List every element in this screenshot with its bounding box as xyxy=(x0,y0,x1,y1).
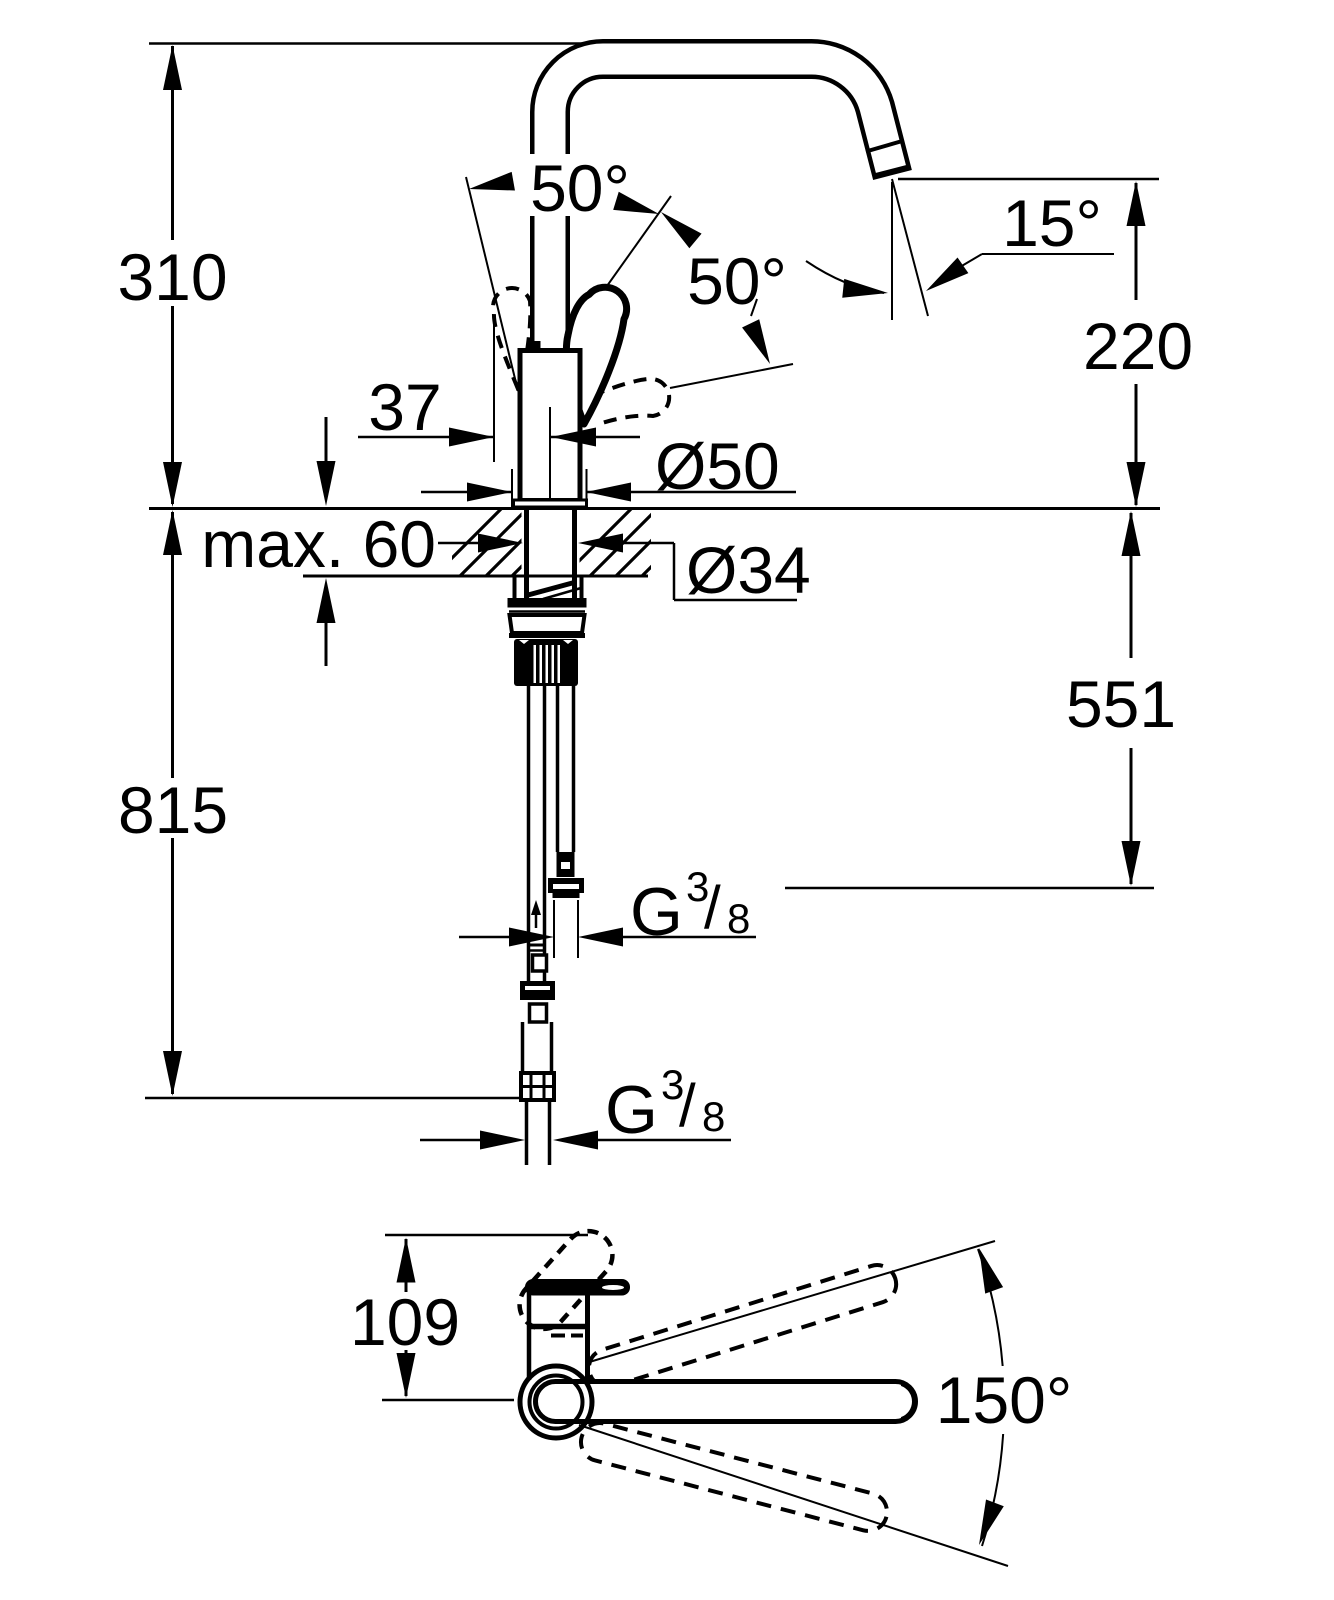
body of faucet xyxy=(520,351,580,501)
svg-text:G: G xyxy=(630,874,683,950)
base flange xyxy=(514,500,587,507)
svg-text:50°: 50° xyxy=(687,244,787,318)
svg-text:150°: 150° xyxy=(936,1363,1073,1437)
150 deg arc xyxy=(978,1249,1004,1546)
label 50 deg (upper) xyxy=(524,154,636,216)
15 deg annotation at spout outlet xyxy=(806,179,1114,320)
svg-text:815: 815 xyxy=(118,773,228,847)
double arrowhead (bowtie) on ray B xyxy=(613,192,662,223)
dimension max. 60 (deck thickness) xyxy=(201,417,523,666)
reference line: spout outlet level (220 datum) xyxy=(898,178,1159,181)
dimension 109 reference lines xyxy=(385,1234,588,1237)
G 3/8 connector nut xyxy=(548,878,584,898)
right supply pipe xyxy=(556,686,560,852)
svg-text:109: 109 xyxy=(350,1285,460,1359)
threaded shank walls xyxy=(524,509,529,599)
handle (down position, dashed) xyxy=(592,379,669,425)
angle ray C (handle down axis) xyxy=(670,364,793,388)
svg-text:8: 8 xyxy=(727,895,750,942)
arrowhead on ray C xyxy=(742,319,779,368)
svg-text:/: / xyxy=(704,874,721,941)
svg-text:37: 37 xyxy=(368,370,441,444)
left supply hose xyxy=(527,686,531,983)
threaded section xyxy=(514,639,578,686)
hose between connectors xyxy=(521,1022,525,1073)
left hose connector xyxy=(520,945,555,1022)
arrowhead on ray A xyxy=(467,172,515,199)
dimension 109 xyxy=(350,1238,460,1399)
plan: handle (dashed, rest position) xyxy=(510,1221,623,1339)
dimension 551 (right, middle) xyxy=(1066,511,1176,886)
deck / counter top line xyxy=(149,507,1160,510)
plan: swivel ring xyxy=(520,1366,592,1438)
dimension 220 (right, top) xyxy=(1083,181,1193,507)
hose end xyxy=(525,1100,529,1165)
tilted stream line xyxy=(892,179,928,316)
reference line: top of spout (310 datum) xyxy=(149,42,614,45)
angle ray B (handle middle axis) xyxy=(565,196,671,345)
angle ray A (handle up axis) xyxy=(466,177,518,391)
plan: swung spout (upper, dashed) xyxy=(584,1260,901,1391)
dimension dia 50 xyxy=(421,429,796,507)
right pipe fitting xyxy=(557,852,575,877)
vertical reference xyxy=(891,182,893,320)
reference line: hose end (815 datum) xyxy=(145,1097,520,1100)
reference line: G3/8 connector level (551 datum) xyxy=(785,887,1154,890)
lower hose nut xyxy=(521,1073,554,1100)
leader xyxy=(982,253,1114,255)
mounting nut xyxy=(508,598,587,636)
svg-text:50°: 50° xyxy=(530,151,630,225)
horseshoe washer xyxy=(515,577,582,599)
spout tube xyxy=(550,59,893,352)
label 150 deg xyxy=(928,1366,1094,1434)
plan: spout end inner line xyxy=(902,1384,915,1419)
plan: angle ray lower xyxy=(579,1425,1008,1566)
extension line xyxy=(493,324,495,462)
dimension G 3/8 (upper) xyxy=(459,863,756,958)
svg-text:G: G xyxy=(605,1072,658,1148)
arc with arrow (left side) xyxy=(806,261,884,293)
deck underside line xyxy=(303,575,648,578)
aerator joint line xyxy=(866,141,904,152)
dimension dia 34 (shank) xyxy=(578,533,811,607)
deck hatching xyxy=(430,500,718,580)
plan: swung spout (lower, dashed) xyxy=(577,1419,891,1535)
plan: body xyxy=(528,1288,588,1380)
dimension 37 xyxy=(358,324,640,501)
dimension 310 (left, top) xyxy=(117,45,227,507)
dimension G 3/8 (lower) xyxy=(420,1061,731,1150)
svg-text:max. 60: max. 60 xyxy=(201,507,436,581)
svg-text:15°: 15° xyxy=(1002,186,1102,260)
svg-text:551: 551 xyxy=(1066,667,1176,741)
svg-text:8: 8 xyxy=(702,1093,725,1140)
svg-text:/: / xyxy=(679,1072,696,1139)
handle (middle position, solid) xyxy=(566,287,626,424)
check valve symbol in left hose xyxy=(531,900,541,928)
svg-text:Ø34: Ø34 xyxy=(686,533,811,607)
dimension 815 (left, bottom) xyxy=(118,510,228,1096)
black tab at pipe base xyxy=(528,341,541,349)
centerline xyxy=(549,407,551,501)
svg-text:220: 220 xyxy=(1083,309,1193,383)
handle (up position, dashed) xyxy=(493,288,530,389)
svg-text:310: 310 xyxy=(117,240,227,314)
plan: spout (solid, pointing right) xyxy=(536,1381,916,1421)
plan: lever plate xyxy=(525,1279,630,1296)
plan: angle ray upper xyxy=(586,1241,995,1363)
